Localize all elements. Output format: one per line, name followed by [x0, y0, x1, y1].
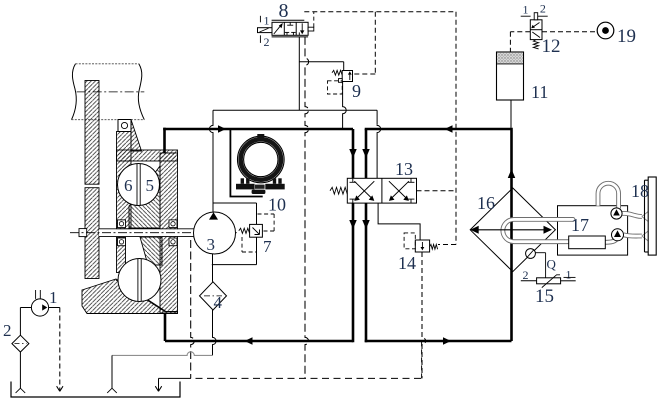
svg-text:1: 1: [523, 3, 529, 17]
svg-text:19: 19: [617, 26, 636, 47]
svg-text:2: 2: [264, 35, 270, 49]
svg-text:2: 2: [3, 321, 12, 340]
svg-text:6: 6: [124, 176, 133, 195]
svg-text:10: 10: [268, 195, 286, 215]
svg-text:12: 12: [542, 36, 561, 57]
svg-text:9: 9: [352, 81, 361, 101]
svg-text:3: 3: [207, 235, 216, 254]
svg-text:Q: Q: [547, 257, 557, 272]
svg-text:2: 2: [540, 2, 546, 16]
svg-text:4: 4: [214, 293, 223, 312]
svg-text:17: 17: [571, 215, 589, 235]
svg-text:16: 16: [477, 193, 495, 213]
svg-text:18: 18: [631, 181, 649, 201]
svg-text:1: 1: [264, 14, 270, 28]
svg-text:14: 14: [398, 253, 416, 273]
svg-text:7: 7: [263, 237, 272, 256]
svg-text:5: 5: [146, 176, 155, 195]
svg-text:13: 13: [395, 159, 413, 179]
svg-text:2: 2: [523, 268, 529, 282]
svg-text:15: 15: [535, 286, 554, 307]
svg-text:1: 1: [566, 268, 572, 282]
svg-text:1: 1: [49, 288, 58, 307]
svg-text:8: 8: [279, 0, 289, 22]
svg-text:11: 11: [531, 82, 548, 102]
